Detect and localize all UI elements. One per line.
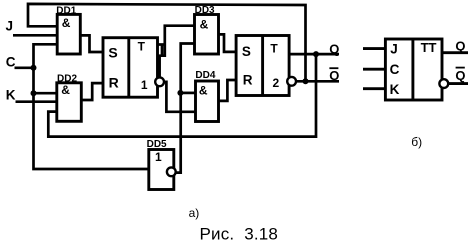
wire DD3 output to latch 2 S input — [219, 34, 237, 52]
svg-text:2: 2 — [273, 76, 280, 90]
wire K input line to DD2 input 2 — [16, 100, 57, 103]
svg-text:C: C — [6, 54, 16, 69]
gate DD4 body — [196, 81, 219, 122]
latch U1 inverted output bubble — [155, 77, 164, 86]
svg-text:Q: Q — [455, 68, 465, 83]
svg-text:&: & — [62, 16, 71, 30]
svg-text:1: 1 — [155, 150, 162, 164]
wire DD4 output to latch 2 R input — [219, 80, 237, 101]
gate DD5 (inverter "1") — [147, 139, 174, 189]
node junction on Q line — [313, 51, 319, 57]
wire C input line — [15, 66, 35, 69]
svg-text:а): а) — [189, 206, 200, 220]
svg-text:C: C — [390, 62, 400, 77]
node Q-bar overbar — [329, 67, 338, 69]
latch U2 divider — [261, 36, 264, 96]
latch U1 divider — [127, 38, 130, 97]
symbol U3 input stub J — [363, 47, 385, 50]
svg-text:Q: Q — [329, 41, 339, 56]
svg-text:S: S — [242, 44, 251, 59]
svg-text:&: & — [199, 84, 208, 98]
flip-flop U3 body — [385, 39, 442, 100]
svg-text:T: T — [138, 40, 146, 54]
svg-text:DD4: DD4 — [195, 70, 215, 81]
node junction on Q-bar line — [303, 78, 309, 84]
svg-text:R: R — [109, 75, 119, 91]
node junction C on C line — [31, 65, 37, 71]
latch U1 (RS latch "1", box with S R T 1) — [103, 38, 158, 97]
svg-text:TT: TT — [421, 40, 437, 55]
gate DD5 output bubble — [167, 167, 176, 176]
wire latch 1 Q riser to DD3 input 1 and stub down to Q-bar bubble — [160, 26, 195, 77]
wire J input line — [13, 34, 57, 37]
wire C-bar branch into DD4 input 1 — [181, 92, 196, 95]
svg-text:Q: Q — [455, 39, 465, 54]
symbol U3 input stub K — [363, 87, 385, 90]
wire Q feedback from Q line down and back to DD2 input 3 — [48, 54, 316, 137]
symbol U3 inverted output bubble — [439, 79, 448, 88]
symbol U3 Q-bar output label — [455, 68, 465, 84]
svg-text:K: K — [390, 82, 400, 97]
gate DD3 body — [195, 15, 219, 55]
svg-text:Q: Q — [329, 68, 339, 83]
latch U1 body — [103, 38, 158, 97]
gate DD1 body — [57, 14, 80, 54]
node Q-bar output label — [329, 68, 339, 83]
symbol U3: JK flip-flop conventional symbol (variant b) — [385, 39, 442, 100]
gate DD2 (3-input NAND, symbol &) — [57, 73, 82, 121]
wire DD5 output (C-bar) up to DD3 input 2 — [176, 44, 194, 173]
svg-text:&: & — [61, 83, 70, 97]
svg-text:R: R — [243, 72, 253, 87]
latch U2 body — [236, 36, 289, 96]
symbol U3 Q output stub — [442, 51, 468, 54]
latch U2 (RS latch "2", box with S R T 2) — [236, 36, 289, 96]
gate DD3 (2-input NAND, symbol &) — [195, 5, 219, 54]
svg-text:Рис. 3.18: Рис. 3.18 — [200, 224, 279, 243]
symbol U3 Q-bar overbar — [456, 67, 465, 69]
svg-text:б): б) — [411, 135, 422, 149]
svg-text:1: 1 — [141, 78, 148, 92]
gate DD2 body — [57, 83, 82, 122]
gate DD1 (3-input NAND, symbol &) — [56, 6, 80, 54]
wire latch 1 Q-bar output to DD4 input 2 — [164, 82, 196, 112]
svg-text:S: S — [108, 45, 117, 61]
flip-flop U3 divider — [411, 39, 414, 100]
symbol U3 Q-bar output stub — [448, 82, 468, 85]
wire short parallel stub at latch 1 Q output corner — [161, 45, 164, 56]
wire C vertical branch to DD1 input 3 and down to DD5 input — [34, 44, 149, 169]
wire latch 1 Q output stub — [158, 43, 165, 46]
gate DD4 (2-input NAND, symbol &) — [195, 70, 218, 121]
wire Q-bar output line — [296, 80, 339, 83]
gate DD5 body — [149, 150, 174, 190]
node junction C branch to DD2 — [31, 90, 37, 96]
svg-text:K: K — [6, 88, 16, 103]
wire DD1 output to latch 1 S input — [80, 35, 103, 52]
svg-text:T: T — [270, 42, 278, 56]
node junction C-bar branch to DD4 — [177, 90, 183, 96]
svg-text:J: J — [390, 42, 398, 57]
latch U2 inverted output bubble — [287, 77, 296, 86]
svg-text:&: & — [200, 18, 209, 32]
wire Q output line — [289, 53, 339, 56]
wire C branch into DD2 input 1 — [34, 92, 57, 95]
svg-text:J: J — [6, 19, 14, 34]
symbol U3 input stub C — [363, 68, 385, 71]
wire top feedback loop from Q-bar line to DD1 input 1 — [28, 4, 306, 81]
wire DD2 output to latch 1 R input — [81, 83, 103, 100]
